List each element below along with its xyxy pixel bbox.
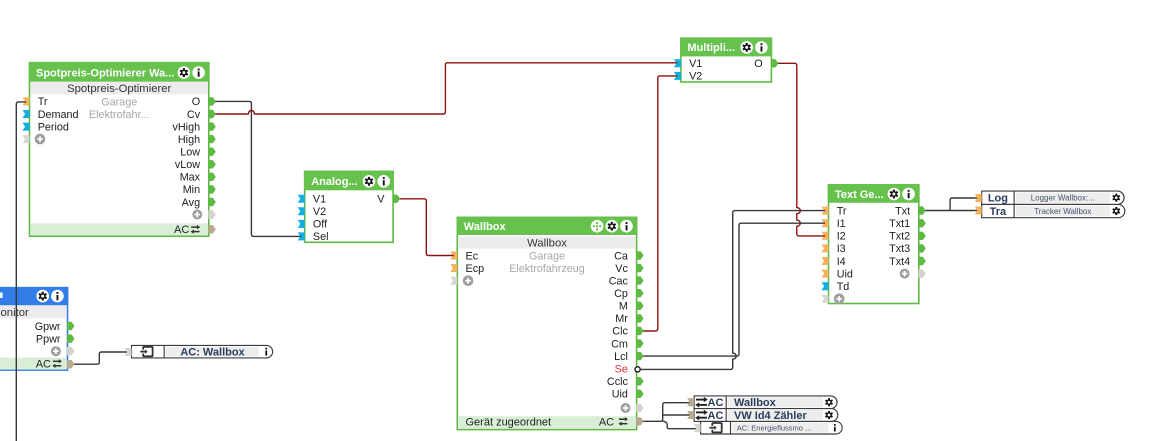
output port O <box>192 96 216 108</box>
output port High <box>178 134 215 146</box>
function block Text Generator <box>828 184 920 304</box>
input port add-input A <box>23 135 30 143</box>
header info icon <box>192 66 205 79</box>
function block Wallbox <box>457 217 638 430</box>
svg-text:I2: I2 <box>837 231 846 243</box>
header info icon <box>620 220 633 233</box>
wire: Wallbox Se output to TextGen Tr (hop over Lcl wire) <box>640 211 825 370</box>
svg-text:O: O <box>754 58 762 70</box>
output port Txt3 <box>889 243 925 255</box>
svg-text:Avg: Avg <box>182 197 200 209</box>
header info icon <box>755 41 768 54</box>
svg-text:O: O <box>192 96 200 108</box>
wire: branch from Txt wire up to Log reference <box>950 198 978 211</box>
svg-text:V2: V2 <box>689 71 702 83</box>
svg-text:Se: Se <box>615 364 628 376</box>
subtitle row ...onitor <box>0 306 67 319</box>
input pin of Log reference <box>975 194 982 202</box>
output port Max <box>180 172 216 184</box>
input port Tr <box>23 96 48 108</box>
svg-text:Spotpreis-Optimierer: Spotpreis-Optimierer <box>67 83 171 95</box>
reference box AC VW Id4 Zaehler <box>694 409 838 422</box>
reference box Tra (Tracker Wallbox) <box>982 204 1125 218</box>
input port I1 (textgen) <box>822 218 846 230</box>
header info icon <box>377 175 390 188</box>
add-pin button F right <box>51 346 61 356</box>
svg-text:Off: Off <box>313 219 328 231</box>
function block energy monitor (blue, clipped at left edge) <box>0 287 68 370</box>
output port Ppwr <box>36 333 74 345</box>
input port Uid (textgen) <box>822 268 853 280</box>
header gear icon <box>740 41 753 54</box>
wire: Wallbox Clc output to Multiplizierer V2 (red) <box>643 76 677 331</box>
svg-text:I1: I1 <box>837 218 846 230</box>
svg-text:Txt2: Txt2 <box>889 231 910 243</box>
header gear icon <box>36 290 49 303</box>
svg-text:Multipli...: Multipli... <box>687 42 735 54</box>
header gear icon <box>888 188 901 201</box>
output port Txt <box>895 205 925 217</box>
svg-text:Low: Low <box>180 147 200 159</box>
svg-text:Txt3: Txt3 <box>889 243 910 255</box>
add-pin button C right <box>621 403 631 413</box>
svg-text:AC: AC <box>36 358 51 370</box>
svg-text:Uid: Uid <box>612 389 628 401</box>
svg-text:Cclc: Cclc <box>607 376 629 388</box>
svg-text:Txt: Txt <box>895 205 910 217</box>
add-pin button A right <box>192 210 202 220</box>
input pin of VW Id4 reference <box>687 411 694 419</box>
svg-text:Wallbox: Wallbox <box>527 237 567 249</box>
svg-text:I4: I4 <box>837 256 846 268</box>
svg-text:onitor: onitor <box>1 307 29 319</box>
wire: Multiplizierer O output to TextGen I2 (red, hops over two black wires) <box>778 63 825 236</box>
reference box AC Wallbox (bottom) <box>694 396 837 409</box>
input port Ec <box>450 250 478 262</box>
output port Cp <box>614 288 643 300</box>
svg-text:Garage: Garage <box>529 250 565 262</box>
reference box Log (Logger Wallbox) <box>982 191 1124 205</box>
svg-text:vHigh: vHigh <box>172 121 200 133</box>
output port Low <box>180 147 215 159</box>
input pin of Tra reference <box>975 207 982 215</box>
output port add-output A <box>209 211 215 218</box>
wire: Spotpreis O output to Analog Sel input <box>215 101 301 236</box>
output port add-output F <box>68 348 74 355</box>
svg-text:Clc: Clc <box>612 326 628 338</box>
svg-text:Tracker Wallbox: Tracker Wallbox <box>1034 207 1091 216</box>
output port Txt1 <box>889 218 925 230</box>
svg-text:AC: AC <box>708 397 724 409</box>
input port I2 (textgen) <box>822 231 846 243</box>
subtitle row Spotpreis-Optimierer <box>30 82 208 95</box>
svg-text:Tr: Tr <box>837 205 847 217</box>
header gear icon <box>606 220 619 233</box>
output port AC C <box>637 418 643 425</box>
svg-text:V2: V2 <box>313 206 326 218</box>
svg-text:Max: Max <box>180 172 201 184</box>
input port V1 <box>298 194 326 206</box>
svg-text:Wallbox: Wallbox <box>734 397 777 409</box>
input port Sel <box>298 231 329 243</box>
wire: branch to VW Id4 Zaehler reference <box>663 414 691 416</box>
svg-text:Ca: Ca <box>614 250 628 262</box>
output port Cm <box>611 338 643 350</box>
header info icon <box>51 290 64 303</box>
svg-text:Mr: Mr <box>615 313 628 325</box>
output port Se (service, highlighted) <box>615 364 641 376</box>
svg-text:Log: Log <box>988 193 1008 205</box>
svg-text:M: M <box>619 301 628 313</box>
svg-text:AC: AC <box>174 224 189 236</box>
input port Td (textgen) <box>822 281 850 293</box>
input port V2 (mult) <box>674 71 702 83</box>
output port Clc <box>612 326 643 338</box>
input port add-input C <box>450 277 457 285</box>
output port Cac <box>609 275 643 287</box>
svg-text:Wallbox: Wallbox <box>464 221 507 233</box>
header gear icon <box>363 175 376 188</box>
output port M <box>619 301 643 313</box>
svg-text:High: High <box>178 134 200 146</box>
svg-text:Gpwr: Gpwr <box>35 321 61 333</box>
output port Cclc <box>607 376 643 388</box>
input port Off <box>298 219 328 231</box>
output port add-output C <box>637 404 643 411</box>
output port AC A <box>209 226 215 233</box>
svg-text:I3: I3 <box>837 243 846 255</box>
input pin of AC: Energieflussmo reference <box>694 424 701 432</box>
output port Min <box>183 184 216 196</box>
input port Ecp <box>450 263 484 275</box>
input port Period <box>23 121 69 133</box>
wire: branch to AC: Energieflussmo reference <box>663 421 698 428</box>
output port Uid <box>612 389 643 401</box>
output port AC F <box>68 361 74 368</box>
svg-text:VW Id4 Zähler: VW Id4 Zähler <box>734 410 807 422</box>
reference box AC: Energieflussmo... <box>701 421 843 434</box>
input port I3 (textgen) <box>822 243 846 255</box>
output port Txt4 <box>889 256 925 268</box>
svg-text:Sel: Sel <box>313 231 329 243</box>
svg-text:AC: Energieflussmo ...: AC: Energieflussmo ... <box>737 423 812 432</box>
wire: Analog V output to Wallbox Ec input (red) <box>400 199 454 256</box>
svg-text:Elektrofahrzeug: Elektrofahrzeug <box>509 263 585 275</box>
footer AC row (monitor block) <box>0 358 67 371</box>
output port add-output E <box>919 270 925 277</box>
output port Txt2 <box>889 231 925 243</box>
svg-text:Cp: Cp <box>614 288 628 300</box>
add-pin button E right <box>900 269 910 279</box>
svg-text:Ecp: Ecp <box>466 263 485 275</box>
output port Avg <box>182 197 216 209</box>
input pin of AC: Wallbox reference <box>125 348 132 356</box>
input port add-input E <box>822 295 829 303</box>
footer AC row (Spotpreis block) <box>30 223 208 236</box>
input pin of AC Wallbox reference <box>687 398 694 406</box>
output port Gpwr <box>35 321 74 333</box>
input port I4 (textgen) <box>822 256 846 268</box>
svg-text:Spotpreis-Optimierer Wa...: Spotpreis-Optimierer Wa... <box>36 67 174 79</box>
header grip icon <box>591 220 604 233</box>
svg-text:Tr: Tr <box>38 96 48 108</box>
input port Tr (textgen) <box>822 205 847 217</box>
svg-text:Analog...: Analog... <box>311 176 357 188</box>
svg-text:Logger Wallbox:...: Logger Wallbox:... <box>1031 194 1095 203</box>
svg-text:AC: AC <box>599 417 614 429</box>
output port vLow <box>175 159 215 171</box>
add-pin button C left <box>463 275 474 286</box>
svg-text:Gerät zugeordnet: Gerät zugeordnet <box>466 417 552 429</box>
output port vHigh <box>172 121 215 133</box>
svg-text:Ec: Ec <box>466 250 479 262</box>
svg-text:V: V <box>377 194 385 206</box>
subtitle row Wallbox <box>458 236 636 249</box>
svg-text:V1: V1 <box>689 58 702 70</box>
svg-text:Cm: Cm <box>611 338 628 350</box>
svg-text:vLow: vLow <box>175 159 200 171</box>
function block Multiplizierer <box>680 37 772 82</box>
svg-text:Period: Period <box>38 121 69 133</box>
svg-text:Garage: Garage <box>101 96 137 108</box>
svg-text:Min: Min <box>183 184 200 196</box>
header gear icon <box>178 66 191 79</box>
output port Ca <box>614 250 643 262</box>
footer row Geraet zugeordnet / AC <box>458 416 636 428</box>
output port V <box>377 194 399 206</box>
svg-text:Ppwr: Ppwr <box>36 333 61 345</box>
function block Analog selector <box>304 171 394 243</box>
svg-text:Cv: Cv <box>187 109 201 121</box>
svg-text:Txt1: Txt1 <box>889 218 910 230</box>
svg-text:Cac: Cac <box>609 275 629 287</box>
output port O (mult) <box>754 58 778 70</box>
svg-text:Tra: Tra <box>990 206 1007 218</box>
svg-text:AC: AC <box>708 410 724 422</box>
output port Lcl <box>614 351 643 363</box>
svg-text:Elektrofahr...: Elektrofahr... <box>89 109 150 121</box>
header info icon <box>902 188 915 201</box>
wire: Spotpreis Cv output to Multiplizierer V1 (red, hop over black wire) <box>215 63 677 114</box>
input port V2 <box>298 206 326 218</box>
svg-text:Uid: Uid <box>837 268 853 280</box>
svg-text:AC: Wallbox: AC: Wallbox <box>180 346 245 358</box>
add-pin button E left <box>834 294 845 305</box>
wire: into Tr of Spotpreis block from off-screen bottom <box>16 102 26 441</box>
input port V1 (mult) <box>674 58 702 70</box>
svg-text:Td: Td <box>837 281 850 293</box>
output port Mr <box>615 313 643 325</box>
svg-text:Demand: Demand <box>38 109 79 121</box>
wire: Wallbox AC output to AC references (trunk) <box>643 403 691 422</box>
wire: monitor AC output to AC: Wallbox reference <box>74 352 128 364</box>
input port Demand <box>23 109 79 121</box>
svg-text:Text Ge...: Text Ge... <box>835 189 884 201</box>
wire: Wallbox Lcl output to TextGen I1 <box>643 223 825 356</box>
reference box AC: Wallbox <box>132 345 273 358</box>
output port Vc <box>615 263 643 275</box>
output port Cv <box>187 109 215 121</box>
svg-text:Lcl: Lcl <box>614 351 628 363</box>
wire: TextGen Txt output to Tra reference <box>925 210 978 212</box>
add-pin button A left <box>35 134 46 145</box>
function block Spotpreis-Optimierer Wallbox <box>29 62 210 236</box>
svg-text:Txt4: Txt4 <box>889 256 910 268</box>
svg-text:V1: V1 <box>313 194 326 206</box>
svg-text:Vc: Vc <box>615 263 628 275</box>
